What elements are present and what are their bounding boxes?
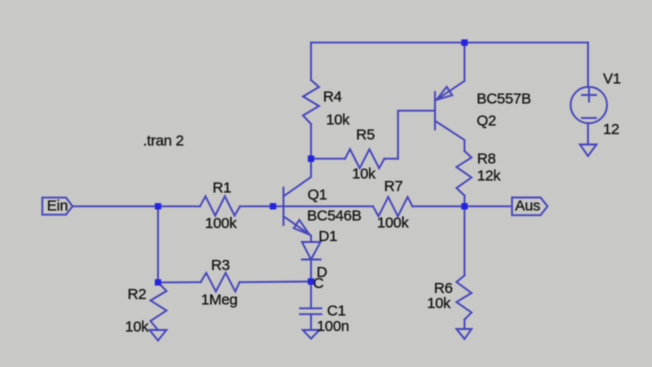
junction top rail / Q2 emitter [461, 39, 467, 45]
svg-text:Q2: Q2 [477, 113, 497, 130]
junction output node (R7/R8/R6/Aus) [461, 203, 467, 209]
wire R4 top lead from rail [310, 43, 312, 80]
svg-text:Q1: Q1 [308, 187, 328, 204]
capacitor C1 bottom plate [300, 313, 321, 315]
svg-text:R7: R7 [384, 178, 403, 195]
wire rail corner down to V1 [587, 43, 589, 87]
transistor Q1 collector [284, 159, 312, 197]
junction R4/R5/Q1 collector [308, 156, 314, 162]
resistor R6 body [457, 275, 472, 319]
capacitor C1 top plate [300, 307, 321, 309]
svg-text:Aus: Aus [515, 198, 540, 215]
svg-text:10k: 10k [125, 319, 149, 336]
svg-text:10k: 10k [352, 166, 376, 183]
resistor R7 body [373, 197, 413, 216]
wire R5 right lead to corner [384, 158, 398, 160]
svg-text:1Meg: 1Meg [201, 292, 238, 309]
svg-text:R3: R3 [211, 257, 230, 274]
svg-text:R2: R2 [128, 286, 147, 303]
junction R2/R3 node [155, 279, 161, 285]
resistor R5 body [345, 149, 384, 168]
resistor R8 body [457, 151, 472, 196]
voltage source V1 minus sign [582, 117, 596, 119]
svg-text:C: C [313, 275, 324, 292]
wire node A to R1 left lead [158, 205, 200, 207]
svg-text:.tran 2: .tran 2 [143, 133, 184, 150]
wire R3 right lead to node C [240, 281, 312, 284]
svg-text:100n: 100n [317, 318, 349, 335]
wire output node to Aus tag [465, 205, 513, 207]
ground below R6 [457, 329, 472, 339]
port tag Aus [512, 198, 548, 216]
svg-text:V1: V1 [603, 70, 621, 87]
svg-text:R1: R1 [213, 180, 232, 197]
svg-text:R5: R5 [356, 127, 375, 144]
svg-text:R4: R4 [323, 89, 342, 106]
ground below V1 [580, 145, 597, 157]
svg-text:12: 12 [603, 121, 619, 138]
wire R2 node to R3 left lead [158, 281, 201, 283]
svg-text:R8: R8 [477, 151, 496, 168]
diode D1 triangle [302, 242, 321, 260]
resistor R1 body [200, 196, 240, 215]
resistor R3 body [201, 273, 240, 292]
svg-text:10k: 10k [427, 295, 451, 312]
wire R4 bottom lead to node [310, 124, 312, 159]
resistor R4 body [303, 80, 319, 124]
ground below R2 [150, 330, 167, 341]
transistor Q2 emitter arrow [437, 87, 453, 100]
port tag Ein [42, 198, 72, 215]
ground below C1 [303, 330, 320, 339]
svg-text:D1: D1 [319, 228, 338, 245]
wire base node through to R7 [284, 205, 374, 207]
svg-text:Ein: Ein [47, 198, 68, 215]
wire node to R5 left lead [311, 158, 345, 160]
transistor Q1 emitter [284, 216, 312, 242]
svg-text:BC546B: BC546B [307, 208, 362, 225]
wire output node down to R6 [464, 206, 466, 275]
transistor Q1 base bar [283, 188, 285, 225]
svg-text:100k: 100k [205, 215, 237, 232]
wire R1 right lead to base node [240, 205, 284, 207]
transistor Q2 base bar [434, 92, 436, 129]
wire R8 bottom lead to output node [464, 196, 466, 207]
junction node A (Ein/R1/R2) [155, 203, 161, 209]
svg-text:C1: C1 [327, 302, 346, 319]
svg-text:100k: 100k [377, 215, 409, 232]
voltage source V1 plus sign [582, 89, 596, 102]
svg-text:10k: 10k [326, 112, 350, 129]
junction at Q1 base [270, 203, 276, 209]
transistor Q2 emitter [435, 43, 465, 101]
svg-text:12k: 12k [477, 168, 501, 185]
wire R7 right lead to output node [413, 205, 465, 207]
wire node A down to R2/R3 node [157, 206, 159, 282]
resistor R2 body [151, 282, 167, 330]
transistor Q1 emitter arrow [294, 220, 310, 235]
wire R6 bottom lead to ground [464, 320, 466, 330]
wire D1 cathode to node C [310, 260, 312, 282]
wire C1 to ground [310, 314, 312, 330]
wire V1 bottom to ground [587, 123, 589, 144]
transistor Q2 collector [435, 121, 465, 151]
voltage source V1 circle [571, 87, 607, 123]
diode D1 cathode bar [302, 259, 321, 261]
junction node C (D1/R3/C1) [308, 278, 314, 284]
wire Ein to node A [73, 205, 159, 207]
wire top supply rail [311, 42, 588, 44]
wire node C down to C1 [310, 282, 312, 309]
svg-text:BC557B: BC557B [477, 91, 532, 108]
wire corner up to Q2 base [398, 111, 435, 159]
